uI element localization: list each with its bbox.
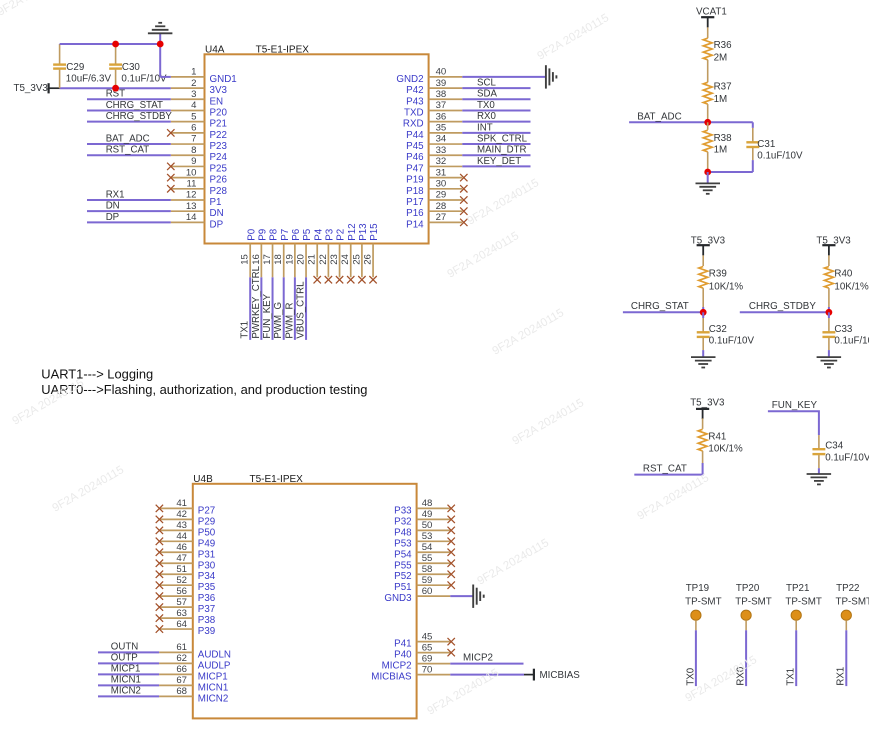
svg-text:TP-SMT: TP-SMT [735,596,771,607]
U4A pin 29 (P17) [406,190,462,208]
svg-text:2: 2 [191,78,196,89]
svg-text:0.1uF/10V: 0.1uF/10V [757,150,803,161]
no-connect X pin 56 [156,592,163,599]
svg-text:20: 20 [295,254,306,265]
svg-text:MICP1: MICP1 [198,671,228,682]
svg-text:30: 30 [436,179,447,190]
svg-text:P16: P16 [406,208,424,219]
svg-text:DP: DP [106,212,119,223]
svg-text:P54: P54 [394,549,412,560]
wire net PWRKEY_CTRL [260,277,262,340]
svg-text:3V3: 3V3 [210,85,228,96]
svg-text:T5-E1-IPEX: T5-E1-IPEX [256,45,310,56]
U4A pin 5 (P21) [171,111,227,129]
U4B pin 62 (AUDLP) [159,653,231,671]
svg-text:RX1: RX1 [106,189,125,200]
svg-text:70: 70 [422,664,433,675]
svg-text:BAT_ADC: BAT_ADC [637,111,681,122]
svg-text:R41: R41 [708,431,726,442]
svg-text:OUTP: OUTP [111,652,138,663]
svg-text:UART0--->Flashing, authorizati: UART0--->Flashing, authorization, and pr… [41,382,367,397]
svg-text:60: 60 [422,586,433,597]
svg-text:SCL: SCL [477,77,496,88]
U4B pin 56 (P36) [159,586,216,604]
svg-text:VCAT1: VCAT1 [696,6,727,17]
svg-text:44: 44 [176,531,187,542]
svg-text:MICBIAS: MICBIAS [371,672,412,683]
svg-text:1M: 1M [714,144,728,155]
svg-text:34: 34 [436,134,447,145]
U4B pin 47 (P30) [159,553,216,571]
U4B pin 43 (P50) [159,520,216,538]
no-connect X pin 31 [460,174,467,181]
wire net PWM_R [294,277,296,340]
no-connect X pin 23 [336,276,343,283]
svg-text:68: 68 [176,686,187,697]
U4A pin 28 (P16) [406,201,462,219]
svg-text:59: 59 [422,575,433,586]
svg-text:P19: P19 [406,175,423,186]
test point TP20 [735,583,771,630]
svg-text:53: 53 [422,531,433,542]
svg-text:25: 25 [351,254,362,265]
svg-text:TX1: TX1 [786,668,797,686]
resistor R36 [703,27,732,63]
resistor R39 [699,255,744,307]
resistor R40 [825,255,869,307]
svg-text:14: 14 [186,212,197,223]
svg-text:26: 26 [362,254,373,265]
svg-text:P47: P47 [406,163,423,174]
svg-text:P18: P18 [406,186,424,197]
U4B pin 55 (P55) [394,553,450,571]
svg-text:T5_3V3: T5_3V3 [690,398,725,409]
svg-text:P35: P35 [198,582,216,593]
svg-text:P20: P20 [210,107,228,118]
svg-text:4: 4 [191,100,197,111]
wire gnd link [708,171,753,173]
no-connect X pin 30 [460,185,467,192]
svg-text:2M: 2M [714,53,728,64]
svg-text:43: 43 [176,520,187,531]
svg-text:63: 63 [176,608,187,619]
no-connect X pin 65 [448,649,455,656]
svg-text:R39: R39 [709,269,727,280]
svg-text:T5_3V3: T5_3V3 [14,83,49,94]
test point TP22 [836,583,869,630]
svg-text:RST_CAT: RST_CAT [106,145,150,156]
op-amp U4A chip body [205,54,429,243]
svg-text:P15: P15 [369,223,380,241]
U4A pin 6 (P22) [171,123,227,141]
U4A pin 9 (P25) [171,156,228,174]
svg-text:64: 64 [176,619,187,630]
test point TP19 [685,583,721,630]
svg-text:DN: DN [210,208,224,219]
svg-text:1: 1 [191,67,196,78]
U4B pin 61 (AUDLN) [159,642,231,660]
U4A pin 34 (P45) [406,134,462,152]
svg-text:C33: C33 [834,324,853,335]
U4A pin 1 (GND1) [171,67,237,85]
wire net PWM_G [283,277,285,340]
svg-text:P24: P24 [210,152,228,163]
ground below C34 [807,474,832,484]
svg-text:0.1uF/10V: 0.1uF/10V [825,452,869,463]
svg-text:MICP2: MICP2 [463,653,493,664]
svg-text:TX1: TX1 [240,321,251,339]
U4A pin 3 (EN) [171,89,223,107]
junction BAT_ADC node [704,119,711,126]
svg-text:P37: P37 [198,604,215,615]
no-connect X pin 9 [167,163,174,170]
svg-text:GND3: GND3 [384,593,412,604]
U4B pin 44 (P49) [159,531,215,549]
capacitor C30 [109,44,167,88]
svg-text:41: 41 [176,498,187,509]
wire net MICN1 [98,684,159,686]
U4B pin 57 (P37) [159,597,215,615]
wire net VBUS_CTRL [305,277,307,340]
svg-text:P27: P27 [198,505,215,516]
svg-text:TP22: TP22 [836,583,859,594]
svg-text:52: 52 [176,575,187,586]
svg-text:40: 40 [436,67,447,78]
wire net TX1 [249,277,251,340]
svg-text:P44: P44 [406,130,424,141]
no-connect X pin 11 [167,185,174,192]
U4B pin 51 (P34) [159,564,216,582]
junction gnd node [704,169,711,176]
U4B pin 52 (P35) [159,575,216,593]
capacitor C29 [53,44,111,88]
svg-text:P46: P46 [406,152,424,163]
wire net SCL [462,87,530,89]
svg-text:57: 57 [176,597,187,608]
svg-text:P53: P53 [394,538,412,549]
U4A pin 14 (DP) [171,212,224,230]
ground below C33 [817,357,842,367]
U4A pin 36 (RXD) [403,111,462,129]
wire net MAIN_DTR [462,154,530,156]
wire net OUTN [98,651,159,653]
wire net TX0 [462,109,530,111]
svg-text:R40: R40 [834,269,853,280]
svg-text:TXD: TXD [404,107,424,118]
U4B pin 68 (MICN2) [159,686,228,704]
svg-text:10uF/6.3V: 10uF/6.3V [66,73,112,84]
wire net RST_CAT [634,463,702,475]
no-connect X pin 47 [156,560,163,567]
svg-text:P39: P39 [198,626,215,637]
svg-text:P14: P14 [406,219,424,230]
resistor R37 [703,82,731,105]
svg-text:P9: P9 [257,229,268,241]
svg-text:65: 65 [422,642,433,653]
U4A pin 10 (P26) [171,167,228,185]
svg-text:10K/1%: 10K/1% [708,444,743,455]
svg-text:P7: P7 [280,229,291,241]
wire net DN [87,210,171,212]
svg-text:18: 18 [273,254,284,265]
U4A pin 23 (P2) [329,229,347,277]
U4B pin 58 (P52) [394,564,450,582]
no-connect X pin 25 [358,276,365,283]
svg-text:MICN1: MICN1 [198,682,228,693]
no-connect X pin 55 [448,560,455,567]
wire R39 to node [702,307,704,312]
svg-text:C31: C31 [757,139,775,150]
U4A pin 33 (P46) [406,145,462,163]
no-connect X pin 51 [156,571,163,578]
svg-text:MICP1: MICP1 [111,663,141,674]
no-connect X pin 58 [448,571,455,578]
svg-text:P23: P23 [210,141,228,152]
U4B pin 54 (P54) [394,542,450,560]
no-connect X pin 59 [448,581,455,588]
svg-text:DP: DP [210,219,224,230]
svg-text:TP21: TP21 [786,583,809,594]
svg-text:P12: P12 [347,223,358,240]
svg-text:P45: P45 [406,141,424,152]
wire net MICP1 [98,673,159,675]
wire R40 to node [828,307,830,312]
svg-text:47: 47 [176,553,187,564]
wire gnd stem [707,172,709,183]
op-amp U4B chip body [193,484,417,719]
wire pin40 to ground [462,76,546,78]
power port MICBIAS [524,669,580,682]
junction T5_3V3 rail / C30 [112,85,119,92]
svg-text:TP-SMT: TP-SMT [685,596,721,607]
U4A pin 8 (P24) [171,145,228,163]
svg-text:11: 11 [187,179,197,190]
svg-text:27: 27 [436,212,447,223]
ground (rotated) right of pin40 [546,65,557,88]
no-connect X pin 46 [156,549,163,556]
wire net FUN_KEY [272,277,274,340]
svg-text:P5: P5 [302,228,313,241]
ground below C32 [691,357,716,367]
svg-text:P8: P8 [269,228,280,241]
svg-text:TP20: TP20 [736,583,760,594]
svg-text:P17: P17 [406,197,423,208]
wire net MICN2 [98,695,159,697]
svg-text:62: 62 [176,653,187,664]
svg-text:MICN2: MICN2 [111,685,141,696]
svg-text:P28: P28 [210,186,228,197]
svg-text:OUTN: OUTN [111,641,138,652]
svg-text:P6: P6 [291,228,302,241]
no-connect X pin 21 [314,276,321,283]
no-connect X pin 50 [448,527,455,534]
U4B pin 50 (P48) [394,520,450,538]
svg-text:TX0: TX0 [685,667,696,685]
svg-text:P55: P55 [394,560,412,571]
no-connect X pin 64 [156,625,163,632]
wire R36-R37 lead [707,60,709,83]
no-connect X pin 53 [448,538,455,545]
svg-text:13: 13 [186,201,197,212]
svg-text:KEY_DET: KEY_DET [477,156,521,167]
svg-text:61: 61 [176,642,187,653]
svg-text:CHRG_STAT: CHRG_STAT [106,100,163,111]
wire net FUN_KEY [768,411,819,435]
svg-text:C34: C34 [825,441,844,452]
svg-text:CHRG_STDBY: CHRG_STDBY [106,111,173,122]
svg-text:EN: EN [210,96,224,107]
svg-text:P52: P52 [394,571,411,582]
svg-text:66: 66 [176,664,187,675]
svg-text:C30: C30 [122,62,141,73]
U4A pin 16 (P9) [251,229,269,277]
svg-text:P49: P49 [198,538,215,549]
svg-text:28: 28 [436,201,447,212]
svg-text:TX0: TX0 [477,100,495,111]
no-connect X pin 26 [369,276,376,283]
svg-text:R37: R37 [714,82,732,93]
svg-text:P4: P4 [313,228,324,241]
svg-text:AUDLP: AUDLP [198,660,231,671]
power port T5_3V3 [14,83,60,94]
svg-text:0.1uF/10V: 0.1uF/10V [834,336,869,347]
svg-text:1M: 1M [714,94,728,105]
wire net RX1 [87,199,171,201]
test point TP21 [785,583,821,630]
svg-text:P1: P1 [210,197,222,208]
no-connect X pin 45 [448,638,455,645]
no-connect X pin 24 [347,276,354,283]
svg-text:P40: P40 [394,650,412,661]
no-connect X pin 41 [156,505,163,512]
no-connect X pin 29 [460,196,467,203]
svg-text:36: 36 [436,111,447,122]
svg-text:P33: P33 [394,505,412,516]
U4A pin 13 (DN) [171,201,224,219]
wire net CHRG_STDBY [740,311,829,313]
svg-text:55: 55 [422,553,433,564]
svg-text:P48: P48 [394,527,412,538]
svg-text:P43: P43 [406,96,424,107]
svg-text:TP-SMT: TP-SMT [785,596,821,607]
no-connect X pin 44 [156,538,163,545]
svg-text:7: 7 [191,134,196,145]
ground (flipped) top-left [148,23,173,34]
svg-text:C29: C29 [66,62,84,73]
svg-text:P30: P30 [198,560,216,571]
no-connect X pin 57 [156,603,163,610]
U4A pin 40 (GND2) [396,67,462,85]
svg-text:49: 49 [422,509,433,520]
svg-text:56: 56 [176,586,187,597]
U4A pin 18 (P7) [273,229,291,277]
svg-text:P21: P21 [210,119,227,130]
svg-text:0.1uF/10V: 0.1uF/10V [709,336,755,347]
svg-text:15: 15 [240,254,251,265]
junction CHRG_STDBY node [826,309,833,316]
svg-text:P42: P42 [406,85,423,96]
svg-text:51: 51 [176,564,187,575]
U4A pin 22 (P3) [318,228,336,277]
wire net CHRG_STAT [87,109,171,111]
wire R37 lower lead [707,104,709,122]
svg-text:GND1: GND1 [210,74,237,85]
svg-text:SPK_CTRL: SPK_CTRL [477,133,528,144]
no-connect X pin 43 [156,527,163,534]
capacitor C34 [812,435,869,474]
svg-text:P32: P32 [394,516,411,527]
svg-text:P36: P36 [198,593,216,604]
no-connect X pin 28 [460,207,467,214]
U4A pin 7 (P23) [171,134,228,152]
svg-text:9: 9 [191,156,196,167]
svg-text:35: 35 [436,123,447,134]
svg-text:42: 42 [176,509,187,520]
svg-text:10K/1%: 10K/1% [834,282,869,293]
svg-text:FUN_KEY: FUN_KEY [262,293,273,338]
svg-text:3: 3 [191,89,196,100]
svg-text:P26: P26 [210,175,228,186]
svg-text:32: 32 [436,156,447,167]
U4A pin 26 (P15) [362,223,380,277]
svg-text:AUDLN: AUDLN [198,649,231,660]
svg-text:P51: P51 [394,582,411,593]
wire net DP [87,221,171,223]
svg-text:48: 48 [422,498,433,509]
svg-text:21: 21 [307,254,318,265]
svg-text:58: 58 [422,564,433,575]
U4A pin 35 (P44) [406,123,462,141]
no-connect X pin 22 [325,276,332,283]
U4B pin 49 (P32) [394,509,450,527]
svg-text:P41: P41 [394,639,411,650]
wire net OUTP [98,662,159,664]
U4A pin 30 (P18) [406,179,462,197]
wire net BAT_ADC [629,121,753,123]
svg-text:17: 17 [262,254,273,265]
wire net CHRG_STDBY [87,121,171,123]
svg-text:33: 33 [436,145,447,156]
wire net TX1 [795,630,797,686]
U4B pin 70 (MICBIAS) [371,664,450,682]
svg-text:24: 24 [340,253,351,264]
svg-text:DN: DN [106,201,120,212]
U4A pin 25 (P13) [351,223,369,277]
svg-text:P13: P13 [358,223,369,241]
svg-text:FUN_KEY: FUN_KEY [772,400,818,411]
U4B pin 63 (P38) [159,608,216,626]
svg-text:P2: P2 [336,229,347,241]
svg-text:29: 29 [436,190,447,201]
U4A pin 17 (P8) [262,228,280,277]
svg-text:P29: P29 [198,516,215,527]
U4B pin 41 (P27) [159,498,215,516]
junction top rail / C30 [112,41,119,48]
svg-text:5: 5 [191,111,196,122]
svg-text:8: 8 [191,145,196,156]
svg-text:MICN2: MICN2 [198,693,228,704]
svg-text:P38: P38 [198,615,216,626]
svg-text:6: 6 [191,123,196,134]
U4B pin 59 (P51) [394,575,450,593]
U4A pin 31 (P19) [406,167,462,185]
svg-text:54: 54 [422,542,433,553]
wire net RST [87,98,171,100]
U4B pin 46 (P31) [159,542,215,560]
wire net INT [462,132,530,134]
no-connect X pin 63 [156,614,163,621]
no-connect X pin 6 [167,129,174,136]
